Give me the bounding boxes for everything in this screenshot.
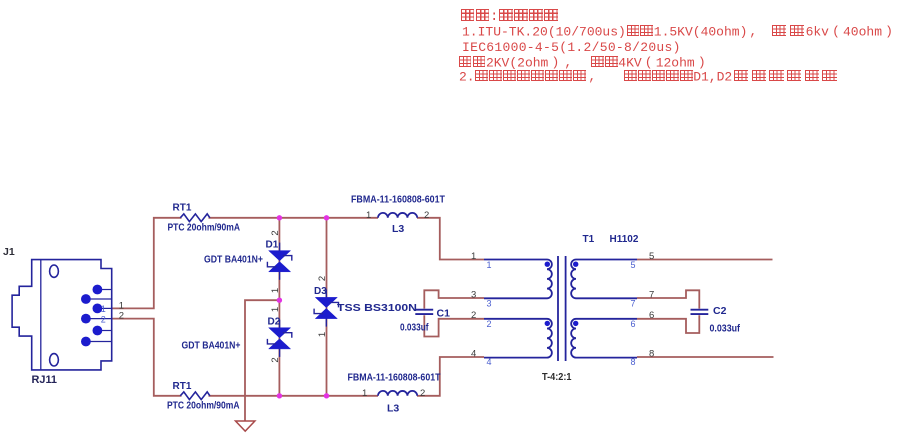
svg-text:PTC 20ohm/90mA: PTC 20ohm/90mA	[167, 401, 240, 412]
svg-text:2: 2	[487, 319, 492, 329]
svg-text:2: 2	[424, 210, 429, 221]
svg-text:D3: D3	[314, 286, 327, 297]
svg-text:7: 7	[631, 298, 636, 308]
svg-text:6: 6	[631, 319, 636, 329]
svg-text:7: 7	[649, 290, 654, 301]
svg-text:2: 2	[471, 310, 476, 321]
svg-text:TSS BS3100N: TSS BS3100N	[337, 303, 417, 314]
svg-text:FBMA-11-160808-601T: FBMA-11-160808-601T	[348, 373, 441, 384]
svg-text:6: 6	[649, 310, 654, 321]
svg-text:C1: C1	[437, 308, 451, 320]
svg-text:RT1: RT1	[173, 381, 192, 392]
svg-text:4: 4	[487, 357, 492, 367]
svg-text:1: 1	[362, 388, 367, 399]
svg-text:1: 1	[471, 251, 476, 262]
svg-text:1: 1	[270, 307, 281, 312]
svg-text:RJ11: RJ11	[32, 374, 58, 386]
svg-text:D2: D2	[268, 317, 281, 328]
svg-text:1: 1	[366, 210, 371, 221]
svg-text:2: 2	[317, 276, 328, 281]
svg-text:1: 1	[487, 260, 492, 270]
svg-text:C2: C2	[713, 305, 727, 317]
svg-text:J1: J1	[3, 246, 15, 258]
svg-text:D1: D1	[266, 240, 279, 251]
svg-text:0.033uf: 0.033uf	[710, 324, 741, 335]
svg-text:4: 4	[471, 348, 476, 359]
svg-text:5: 5	[631, 260, 636, 270]
svg-text:2: 2	[270, 357, 281, 362]
svg-text:H1102: H1102	[610, 234, 639, 245]
svg-text:RT1: RT1	[173, 203, 192, 214]
svg-text:FBMA-11-160808-601T: FBMA-11-160808-601T	[351, 195, 445, 206]
svg-text:GDT BA401N+: GDT BA401N+	[204, 255, 263, 266]
svg-text:L3: L3	[392, 223, 404, 235]
svg-text:1: 1	[317, 332, 328, 337]
svg-text:2: 2	[270, 230, 281, 235]
svg-text:T-4:2:1: T-4:2:1	[542, 372, 572, 383]
svg-text:3: 3	[487, 298, 492, 308]
svg-text:8: 8	[631, 357, 636, 367]
svg-text:T1: T1	[583, 234, 595, 245]
svg-text:0.033uf: 0.033uf	[400, 323, 429, 334]
svg-text:1: 1	[270, 288, 281, 293]
svg-text:2: 2	[101, 315, 106, 325]
svg-text:PTC 20ohm/90mA: PTC 20ohm/90mA	[168, 223, 241, 234]
svg-text:5: 5	[649, 251, 654, 262]
svg-text:1: 1	[101, 304, 106, 314]
svg-text:2: 2	[119, 311, 124, 322]
svg-text:GDT BA401N+: GDT BA401N+	[182, 341, 241, 352]
svg-text:8: 8	[649, 348, 654, 359]
svg-text:2: 2	[420, 388, 425, 399]
svg-text:3: 3	[471, 290, 476, 301]
svg-text:L3: L3	[387, 403, 399, 415]
